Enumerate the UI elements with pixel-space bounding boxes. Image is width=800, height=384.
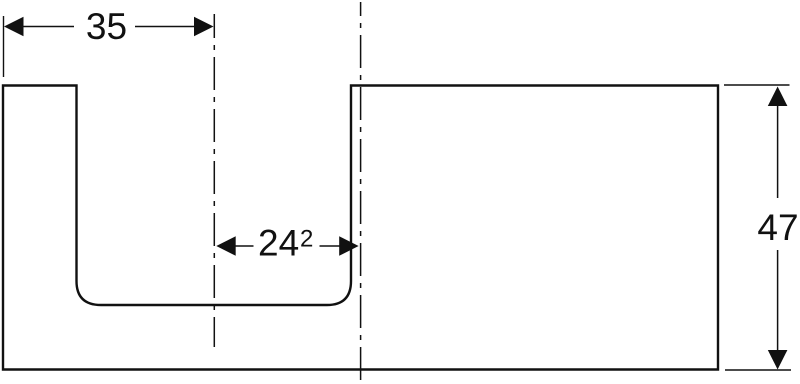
dimension 24 sup2 line left segment xyxy=(235,245,254,247)
dimension 24 sup2 arrow left xyxy=(216,236,235,256)
svg-text:24: 24 xyxy=(258,223,299,264)
svg-text:35: 35 xyxy=(86,6,127,47)
centerline right (x=360.6) xyxy=(360,2,362,382)
dimension 47 arrow bottom xyxy=(768,350,788,370)
dimension 35 arrow left xyxy=(4,17,24,37)
extension line bottom right (for dim 47) xyxy=(725,369,791,371)
dimension 24 sup2 arrow right xyxy=(339,236,358,256)
extension line top right (for dim 47) xyxy=(724,84,790,86)
dimension 24 sup2 line right segment xyxy=(320,245,342,247)
svg-text:2: 2 xyxy=(300,226,313,253)
dimension 35 arrow right xyxy=(194,17,214,37)
centerline left (x=214) xyxy=(213,14,215,347)
dimension 47 arrow top xyxy=(768,87,788,107)
extension line left (for dim 35) xyxy=(3,16,5,77)
dimension 35 line right segment xyxy=(135,26,195,28)
dimension 47 line top segment xyxy=(777,106,779,198)
panel outline with U-shaped cutout xyxy=(3,86,718,370)
dimension 35 line left segment xyxy=(22,26,74,28)
svg-text:47: 47 xyxy=(757,207,798,248)
dimension 47 line bottom segment xyxy=(777,250,779,350)
